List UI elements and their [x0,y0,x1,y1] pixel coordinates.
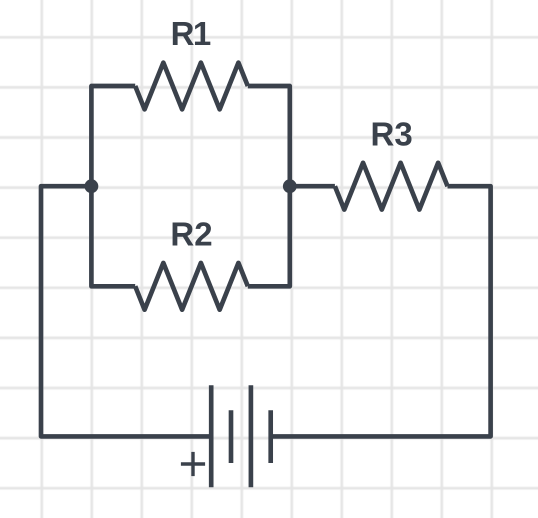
battery B1: inner short plate [229,410,234,463]
resistor R3 [335,163,448,210]
resistor R2 [135,263,248,310]
svg-text:R3: R3 [371,115,413,152]
battery B1: outer long plate (positive terminal) [209,385,214,487]
wire: node A left to bottom-left corner, down and along bottom to battery positive plate [41,186,211,436]
svg-text:R2: R2 [170,215,212,252]
battery B1: inner long plate [249,385,254,487]
node B junction dot [283,179,297,193]
wire: R3 to top-right corner, down right rail and along bottom to battery negative plate [271,186,491,436]
wire: node A down and right to R2 [91,186,135,286]
battery B1: outer short plate (negative terminal) [268,410,273,463]
wire: node A up and right to R1 [91,86,135,186]
node A junction dot [85,179,99,193]
battery polarity label: plus sign [181,452,205,476]
wire: R1 right then down to node B [248,86,290,186]
svg-text:R1: R1 [171,15,211,52]
wire: R2 right then up to node B [248,186,290,286]
resistor R1 [135,63,248,110]
wire: node B right to R3 [290,184,335,189]
